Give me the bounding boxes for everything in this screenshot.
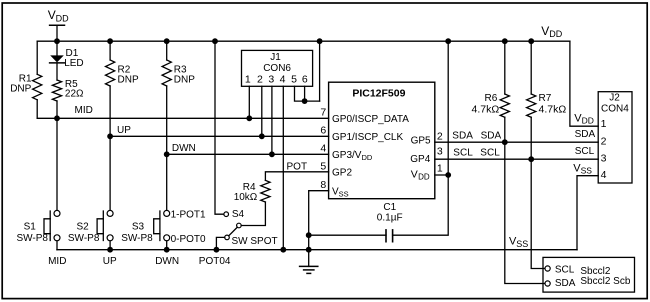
svg-text:3: 3	[268, 74, 274, 86]
svg-text:22Ω: 22Ω	[65, 89, 84, 100]
svg-text:SS: SS	[581, 165, 593, 175]
svg-text:UP: UP	[103, 256, 117, 267]
svg-text:CON6: CON6	[263, 63, 291, 74]
svg-text:LED: LED	[64, 58, 83, 69]
svg-text:2: 2	[601, 136, 607, 148]
wire J1 pin6	[304, 86, 306, 101]
wire J1 pin1 to MID	[248, 86, 250, 118]
wire J1 pin2 to UP	[261, 86, 263, 136]
svg-text:1: 1	[601, 118, 607, 130]
resistor R4	[234, 180, 270, 225]
svg-text:6: 6	[302, 74, 308, 86]
svg-text:Sbccl2 Scb: Sbccl2 Scb	[580, 276, 630, 287]
wire VDD riser right	[447, 41, 449, 175]
svg-text:UP: UP	[117, 125, 131, 136]
wire DWN net	[167, 153, 329, 155]
svg-text:0.1µF: 0.1µF	[377, 213, 403, 224]
svg-text:S3: S3	[132, 222, 145, 233]
switch S4 SW SPOT	[215, 41, 278, 250]
svg-text:GP4: GP4	[410, 154, 430, 165]
svg-text:J2: J2	[609, 92, 620, 103]
svg-text:2: 2	[257, 74, 263, 86]
node VDD label right	[541, 24, 563, 39]
svg-text:7: 7	[320, 107, 326, 119]
svg-text:4.7kΩ: 4.7kΩ	[472, 103, 500, 115]
svg-text:SDA: SDA	[481, 130, 502, 141]
node UP/J1.2 junction	[259, 133, 265, 139]
node VDD/R7 junction	[528, 38, 534, 44]
wire VDD pin1	[435, 174, 448, 176]
node SDA/R6 junction	[502, 139, 508, 145]
connector J2 CON4	[573, 92, 632, 183]
wire POT net	[265, 172, 328, 181]
connector I2C header Sbccl2	[543, 257, 635, 292]
wire SDA net	[435, 141, 598, 143]
node SCL/R7 junction	[528, 156, 534, 162]
resistor R7	[527, 41, 567, 117]
node VDD label top-left	[48, 8, 69, 23]
svg-text:SDA: SDA	[452, 130, 473, 141]
svg-text:1-POT1: 1-POT1	[171, 209, 206, 220]
svg-text:J1: J1	[270, 52, 281, 63]
wire J1 pin5	[295, 86, 320, 101]
resistor R3	[162, 41, 195, 154]
connector J1 CON6	[242, 50, 313, 86]
svg-text:DNP: DNP	[174, 75, 195, 86]
node DWN/J1.3 junction	[269, 151, 275, 157]
svg-text:V: V	[541, 24, 549, 38]
svg-text:2: 2	[437, 131, 443, 143]
svg-text:MID: MID	[75, 105, 93, 116]
svg-text:PIC12F509: PIC12F509	[352, 88, 405, 100]
wire J1 pin3 to DWN	[271, 86, 273, 154]
wire SCL net	[435, 158, 598, 160]
svg-text:MID: MID	[48, 256, 66, 267]
svg-text:V: V	[411, 168, 418, 180]
svg-text:SW SPOT: SW SPOT	[232, 236, 278, 247]
switch S2 SW-P8	[68, 136, 113, 249]
node UP/R2 junction	[107, 133, 113, 139]
svg-text:SS: SS	[516, 239, 528, 249]
svg-text:3: 3	[601, 153, 607, 165]
node VDD/R6 junction	[502, 38, 508, 44]
node rail/J1.4 junction	[280, 247, 286, 253]
node rail/ground junction	[306, 247, 312, 253]
wire J2 VSS pin4	[577, 176, 598, 250]
resistor R2	[106, 41, 139, 136]
svg-text:8: 8	[320, 179, 326, 191]
node VDD/R2 junction	[107, 38, 113, 44]
svg-text:SW-P8: SW-P8	[17, 233, 49, 244]
node rail/S2 junction	[107, 247, 113, 253]
ground	[300, 250, 318, 274]
svg-text:DD: DD	[549, 29, 562, 39]
resistor R1	[10, 41, 42, 118]
node VSS label bottom	[509, 236, 528, 249]
svg-text:POT: POT	[287, 161, 308, 172]
LED D1	[50, 41, 84, 80]
svg-text:S1: S1	[24, 222, 37, 233]
wire SCL drop to header	[531, 117, 545, 268]
wire VSS pin8	[309, 191, 329, 250]
wire VDD top bus	[37, 40, 570, 42]
svg-text:SCL: SCL	[480, 147, 500, 158]
svg-text:0-POT0: 0-POT0	[171, 234, 206, 245]
svg-text:DWN: DWN	[172, 143, 196, 154]
svg-text:CON4: CON4	[601, 104, 629, 115]
capacitor C1	[309, 175, 449, 242]
svg-text:SCL: SCL	[575, 146, 595, 157]
switch S1 SW-P8	[17, 118, 61, 249]
svg-text:4: 4	[601, 169, 607, 181]
svg-text:4: 4	[320, 143, 326, 155]
svg-text:DNP: DNP	[10, 84, 31, 95]
node DWN/R3 junction	[164, 151, 170, 157]
svg-text:SW-P8: SW-P8	[68, 233, 100, 244]
node rail/S4 junction	[214, 247, 220, 253]
svg-text:4.7kΩ: 4.7kΩ	[539, 103, 567, 115]
node VDD pin1/C1 junction	[445, 172, 451, 178]
resistor R6	[472, 41, 510, 117]
svg-text:S4: S4	[232, 209, 245, 220]
node VDD/C1 junction	[445, 38, 451, 44]
node VDD/S4 junction	[212, 38, 218, 44]
svg-text:C1: C1	[383, 202, 396, 213]
svg-text:DWN: DWN	[155, 256, 179, 267]
node VDD/J1 junction	[317, 38, 323, 44]
svg-text:SW-P8: SW-P8	[121, 233, 153, 244]
node VDD/R3 junction	[164, 38, 170, 44]
svg-text:SCL: SCL	[555, 265, 575, 276]
svg-text:SDA: SDA	[575, 129, 596, 140]
IC U1 PIC12F509	[329, 82, 435, 199]
svg-text:5: 5	[291, 74, 297, 86]
svg-text:POT04: POT04	[199, 256, 231, 267]
node rail/S3 junction	[164, 247, 170, 253]
svg-text:GP5: GP5	[411, 136, 431, 147]
wire SDA drop to header	[505, 117, 545, 283]
svg-text:5: 5	[320, 160, 326, 172]
svg-text:GP0/ISCP_DATA: GP0/ISCP_DATA	[332, 114, 409, 125]
svg-text:1: 1	[245, 74, 251, 86]
wire J1 pin4 to POT04 rail	[282, 86, 284, 249]
svg-text:DD: DD	[56, 13, 69, 23]
svg-text:DD: DD	[418, 172, 430, 181]
wire VDD to J2 pin1	[570, 41, 598, 126]
svg-text:10kΩ: 10kΩ	[234, 192, 258, 203]
node SDA labels	[452, 130, 501, 141]
svg-text:DNP: DNP	[118, 75, 139, 86]
power VDD symbol top-left	[50, 25, 65, 41]
svg-text:S2: S2	[77, 222, 90, 233]
node MID/R5 junction	[54, 115, 60, 121]
svg-text:GP1/ISCP_CLK: GP1/ISCP_CLK	[332, 132, 403, 143]
svg-text:SCL: SCL	[453, 147, 473, 158]
svg-text:4: 4	[280, 74, 286, 86]
svg-text:6: 6	[320, 125, 326, 137]
switch S3 SW-P8	[121, 154, 170, 249]
node MID/J1.1 junction	[246, 115, 252, 121]
resistor R5	[52, 79, 84, 119]
svg-text:GP2: GP2	[332, 168, 352, 179]
svg-text:DD: DD	[582, 116, 594, 126]
node J1 pin6 junction	[302, 98, 308, 104]
wire MID net	[37, 117, 328, 119]
svg-text:SDA: SDA	[555, 278, 576, 289]
node VSS/C1 junction	[306, 232, 312, 238]
wire ground rail POT04	[57, 249, 577, 251]
svg-text:3: 3	[437, 146, 443, 158]
svg-text:1: 1	[437, 163, 443, 175]
wire UP net	[110, 135, 329, 137]
wire J1 VDD riser	[319, 41, 321, 101]
node SCL labels	[453, 147, 500, 158]
node VDD/D1 junction	[54, 38, 60, 44]
